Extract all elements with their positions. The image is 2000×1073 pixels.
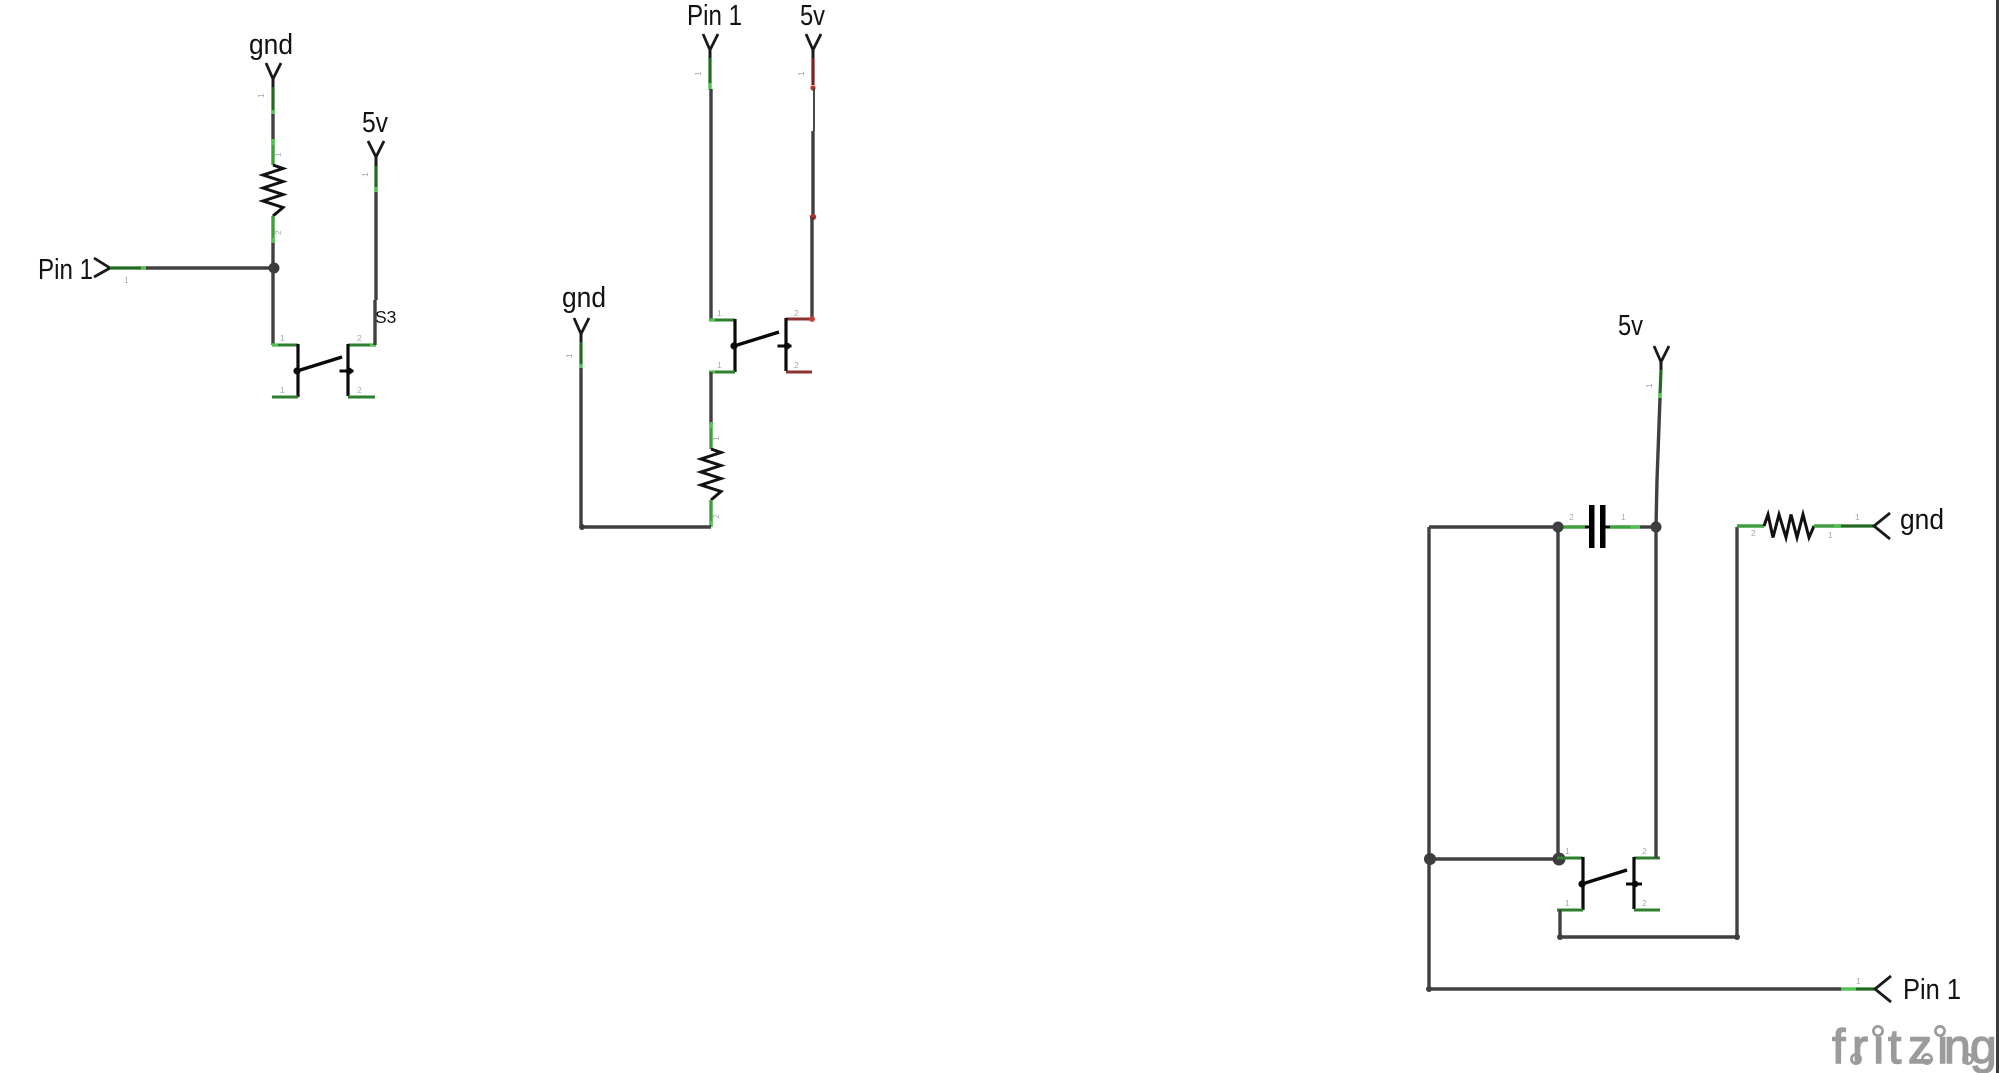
wire Pin 1 to junction: [146, 266, 274, 269]
svg-text:1: 1: [1565, 846, 1570, 856]
resistor R1: [263, 139, 283, 244]
wire 5v to switch pin2: [375, 192, 376, 345]
svg-text:5v: 5v: [800, 0, 825, 32]
svg-text:1: 1: [1828, 530, 1833, 540]
svg-text:5v: 5v: [362, 107, 388, 139]
capacitor C1: [1563, 505, 1640, 548]
svg-text:1: 1: [280, 385, 285, 395]
svg-text:1: 1: [1565, 898, 1570, 908]
svg-text:gnd: gnd: [1900, 504, 1944, 536]
svg-text:1: 1: [280, 333, 285, 343]
svg-text:2: 2: [1751, 528, 1756, 538]
svg-text:1: 1: [711, 436, 721, 441]
svg-text:1: 1: [360, 172, 370, 177]
svg-text:1: 1: [796, 71, 806, 76]
wire left vertical down: [1427, 527, 1430, 859]
svg-text:gnd: gnd: [249, 29, 293, 61]
node junction left mid: [1424, 853, 1436, 865]
svg-text:2: 2: [711, 514, 721, 519]
pushbutton S5: [1557, 846, 1660, 910]
wire 5v to capacitor junction: [1656, 398, 1660, 527]
svg-text:2: 2: [1642, 898, 1647, 908]
svg-text:5v: 5v: [1618, 310, 1643, 342]
wire bottom horizontal to Pin 1: [1429, 987, 1841, 990]
net label gnd (right circuit): [1841, 504, 1944, 539]
pushbutton S4: [709, 308, 815, 372]
net label 5v (left circuit): [360, 107, 388, 193]
pushbutton S3: [272, 333, 376, 397]
net label Pin 1 (middle circuit): [687, 0, 742, 90]
svg-text:2: 2: [1642, 846, 1647, 856]
svg-text:2: 2: [273, 230, 283, 235]
resistor R2: [701, 422, 721, 527]
fritzing watermark: [1832, 1021, 1997, 1073]
node junction at switch pin1: [1553, 853, 1566, 866]
svg-text:1: 1: [1644, 383, 1654, 388]
svg-text:1: 1: [124, 275, 129, 285]
svg-text:frıtzıng: frıtzıng: [1832, 1021, 1997, 1073]
wire gnd to resistor: [271, 114, 274, 140]
window edge line: [1996, 0, 1999, 1073]
resistor R3: [1737, 515, 1842, 541]
wire switch pin1b down and right: [1557, 527, 1740, 940]
wire cap junction left: [1429, 525, 1558, 528]
wire cap junction down to switch: [1556, 527, 1559, 859]
wire junction to switch pin1: [271, 268, 274, 345]
label S3: [375, 307, 396, 327]
wire Pin 1 to switch: [709, 89, 712, 320]
svg-text:1: 1: [1856, 976, 1861, 986]
wire bendpoint to switch pin2: [810, 217, 813, 319]
svg-text:2: 2: [357, 385, 362, 395]
net label 5v (right circuit): [1618, 310, 1669, 400]
wire switch pin2 up to junction: [1654, 527, 1657, 858]
wire mid horizontal: [1430, 857, 1559, 860]
net label 5v (middle circuit): [796, 0, 825, 91]
net label Pin 1 (left circuit): [38, 254, 148, 286]
svg-text:1: 1: [273, 152, 283, 157]
svg-text:2: 2: [794, 360, 799, 370]
node bendpoint (red): [810, 214, 816, 220]
wire bottom left vertical: [1426, 859, 1432, 992]
net label Pin 1 (right circuit): [1841, 974, 1961, 1006]
svg-text:Pin 1: Pin 1: [1903, 974, 1961, 1006]
svg-text:gnd: gnd: [562, 282, 606, 314]
svg-text:1: 1: [1855, 512, 1860, 522]
node junction left of capacitor: [1553, 522, 1564, 533]
net label gnd (middle circuit): [562, 282, 606, 370]
svg-text:1: 1: [717, 360, 722, 370]
wire 5v to bendpoint: [813, 88, 814, 216]
svg-text:1: 1: [717, 308, 722, 318]
wire resistor to junction: [271, 243, 274, 268]
svg-text:2: 2: [1569, 512, 1574, 522]
svg-text:2: 2: [794, 308, 799, 318]
wire gnd down and right to resistor: [579, 368, 711, 530]
wire switch pin1b down to resistor: [709, 372, 712, 424]
svg-text:1: 1: [256, 93, 266, 98]
node junction (Pin1/resistor/switch): [269, 263, 280, 274]
svg-text:Pin 1: Pin 1: [687, 0, 742, 32]
node junction right of capacitor: [1651, 522, 1662, 533]
net label gnd (left circuit): [249, 29, 293, 116]
svg-text:2: 2: [357, 333, 362, 343]
svg-text:1: 1: [1621, 512, 1626, 522]
svg-text:1: 1: [564, 353, 574, 358]
svg-text:Pin 1: Pin 1: [38, 254, 93, 286]
svg-text:S3: S3: [375, 307, 396, 327]
wire capacitor to junction: [1640, 525, 1656, 528]
svg-text:1: 1: [693, 71, 703, 76]
